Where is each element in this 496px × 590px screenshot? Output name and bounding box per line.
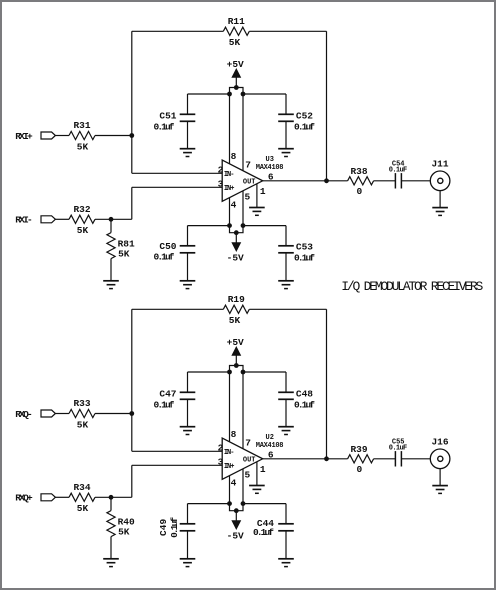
wire RXQ+ to R34 bbox=[55, 496, 69, 498]
wire +5V stem I bbox=[235, 77, 237, 87]
+5V bar Q bbox=[230, 366, 244, 373]
junction output node Q bbox=[324, 456, 329, 461]
svg-text:0: 0 bbox=[357, 186, 363, 197]
wire C48 drop bbox=[285, 372, 287, 392]
junction +5V rail left Q bbox=[227, 370, 232, 375]
junction -5V stem Q bbox=[234, 508, 239, 513]
wire pin8 supply rail Q bbox=[229, 372, 231, 504]
wire R34 to corner Q bbox=[95, 496, 132, 498]
junction +5V stem Q bbox=[234, 363, 239, 368]
svg-text:RXI+: RXI+ bbox=[15, 131, 33, 142]
svg-text:0.1uf: 0.1uf bbox=[154, 121, 175, 132]
svg-text:2: 2 bbox=[218, 165, 224, 176]
wire feedback top left Q bbox=[132, 308, 224, 310]
junction +5V rail right I bbox=[241, 92, 246, 97]
svg-text:R39: R39 bbox=[350, 444, 367, 455]
+5V arrow I bbox=[232, 69, 241, 78]
junction +5V rail right Q bbox=[241, 370, 246, 375]
wire RXI- to R32 bbox=[55, 218, 69, 220]
svg-text:RXQ-: RXQ- bbox=[15, 409, 33, 420]
svg-text:3: 3 bbox=[218, 457, 224, 468]
svg-text:0.1uf: 0.1uf bbox=[294, 121, 315, 132]
resistor R38 bbox=[348, 177, 374, 185]
wire node to R81 bbox=[110, 219, 112, 232]
resistor R19 bbox=[223, 305, 249, 313]
wire pin1 stub I bbox=[256, 184, 258, 208]
wire feedback top right I bbox=[249, 30, 326, 32]
ground J16 bbox=[432, 486, 448, 494]
wire C52 to ground bbox=[285, 121, 287, 148]
svg-text:J11: J11 bbox=[431, 159, 448, 170]
wire C49 drop bbox=[187, 504, 189, 524]
svg-text:5K: 5K bbox=[77, 419, 89, 430]
resistor R31 bbox=[69, 131, 95, 139]
+5V bar I bbox=[230, 88, 244, 95]
op-amp U3 MAX4108 bbox=[222, 160, 263, 201]
svg-text:2: 2 bbox=[218, 443, 224, 454]
wire -5V rail to C53 bbox=[243, 225, 286, 227]
wire R81 to ground bbox=[110, 259, 112, 281]
ground C52 bbox=[278, 149, 294, 157]
junction output node I bbox=[324, 178, 329, 183]
wire C53 to ground bbox=[285, 253, 287, 281]
svg-text:OUT: OUT bbox=[243, 456, 256, 464]
wire C54 to J11 bbox=[401, 180, 430, 182]
wire noninverting vertical I bbox=[131, 187, 133, 219]
ground C49 bbox=[180, 559, 196, 567]
svg-text:5K: 5K bbox=[118, 249, 130, 260]
svg-text:0.1uF: 0.1uF bbox=[389, 166, 408, 174]
svg-text:0.1uf: 0.1uf bbox=[253, 527, 274, 538]
wire noninverting input I bbox=[132, 186, 222, 188]
wire pin1 stub Q bbox=[256, 462, 258, 486]
svg-text:R11: R11 bbox=[228, 16, 245, 27]
svg-text:U2: U2 bbox=[266, 434, 274, 442]
svg-text:+5V: +5V bbox=[227, 337, 244, 348]
wire feedback top right Q bbox=[249, 308, 326, 310]
svg-text:-5V: -5V bbox=[227, 530, 244, 541]
wire feedback left vertical I bbox=[131, 31, 133, 173]
wire +5V stem Q bbox=[235, 355, 237, 365]
ground J11 bbox=[432, 208, 448, 216]
resistor R33 bbox=[69, 409, 95, 417]
ground C51 bbox=[180, 149, 196, 157]
svg-text:7: 7 bbox=[245, 437, 251, 448]
capacitor C52 bbox=[278, 114, 294, 121]
svg-text:R38: R38 bbox=[350, 166, 367, 177]
resistor R81 bbox=[107, 233, 115, 259]
capacitor C54 bbox=[395, 173, 401, 188]
svg-text:3: 3 bbox=[218, 179, 224, 190]
svg-text:R19: R19 bbox=[228, 294, 245, 305]
wire C52 drop bbox=[285, 94, 287, 114]
wire -5V stem I bbox=[235, 233, 237, 243]
wire -5V rail to C50 bbox=[188, 225, 230, 227]
svg-text:5: 5 bbox=[245, 470, 251, 481]
wire R33 to node Q bbox=[95, 413, 132, 415]
input port RXQ+ bbox=[41, 494, 55, 501]
connector J11 bbox=[430, 171, 450, 191]
svg-text:5K: 5K bbox=[118, 527, 130, 538]
junction node inverting Q bbox=[129, 411, 134, 416]
wire pin8 supply rail I bbox=[229, 94, 231, 226]
svg-text:C48: C48 bbox=[296, 388, 313, 399]
capacitor C49 bbox=[180, 524, 196, 531]
svg-text:8: 8 bbox=[231, 429, 237, 440]
svg-text:R31: R31 bbox=[73, 120, 90, 131]
junction +5V rail left I bbox=[227, 92, 232, 97]
svg-text:IN+: IN+ bbox=[224, 185, 235, 193]
capacitor C53 bbox=[278, 246, 294, 253]
input port RXQ- bbox=[41, 410, 55, 417]
wire C51 to ground bbox=[187, 121, 189, 148]
resistor R34 bbox=[69, 493, 95, 501]
wire C44 to ground bbox=[285, 531, 287, 559]
ground C50 bbox=[180, 281, 196, 289]
svg-text:4: 4 bbox=[231, 477, 237, 488]
junction node noninverting Q bbox=[109, 495, 114, 500]
ground C48 bbox=[278, 427, 294, 435]
resistor R11 bbox=[223, 27, 249, 35]
svg-text:5K: 5K bbox=[229, 315, 241, 326]
junction +5V stem I bbox=[234, 85, 239, 90]
input port RXI+ bbox=[41, 132, 55, 139]
junction -5V stem I bbox=[234, 230, 239, 235]
svg-text:7: 7 bbox=[245, 159, 251, 170]
ground C44 bbox=[278, 559, 294, 567]
svg-text:5K: 5K bbox=[229, 37, 241, 48]
wire pin7 supply rail I bbox=[242, 94, 244, 226]
svg-text:5K: 5K bbox=[77, 503, 89, 514]
svg-text:RXI-: RXI- bbox=[15, 215, 33, 226]
wire -5V stem Q bbox=[235, 511, 237, 521]
wire R39 to C55 bbox=[374, 458, 396, 460]
wire inverting input Q bbox=[132, 450, 222, 452]
svg-text:0.1uf: 0.1uf bbox=[154, 251, 175, 262]
wire +5V rail to C51 bbox=[188, 93, 230, 95]
svg-text:0.1uf: 0.1uf bbox=[169, 517, 180, 538]
wire pin7 supply rail Q bbox=[242, 372, 244, 504]
svg-text:C50: C50 bbox=[159, 241, 176, 252]
svg-text:I/Q DEMODULATOR RECEIVERS: I/Q DEMODULATOR RECEIVERS bbox=[341, 279, 483, 294]
-5V arrow Q bbox=[232, 521, 241, 530]
junction -5V rail right I bbox=[241, 223, 246, 228]
junction -5V rail right Q bbox=[241, 501, 246, 506]
svg-text:C51: C51 bbox=[159, 110, 176, 121]
svg-text:5K: 5K bbox=[77, 141, 89, 152]
wire feedback right vertical Q bbox=[326, 309, 328, 459]
wire +5V rail to C52 bbox=[243, 93, 286, 95]
wire R38 to C54 bbox=[374, 180, 396, 182]
resistor R39 bbox=[348, 455, 374, 463]
wire +5V rail to C47 bbox=[188, 371, 230, 373]
junction -5V rail left Q bbox=[227, 501, 232, 506]
wire inverting input I bbox=[132, 172, 222, 174]
capacitor C50 bbox=[180, 246, 196, 253]
capacitor C48 bbox=[278, 392, 294, 399]
svg-text:0.1uf: 0.1uf bbox=[294, 252, 315, 263]
wire C49 to ground bbox=[187, 531, 189, 559]
svg-text:0.1uF: 0.1uF bbox=[389, 444, 408, 452]
ground C47 bbox=[180, 427, 196, 435]
svg-text:IN+: IN+ bbox=[224, 463, 235, 471]
-5V bar Q bbox=[230, 504, 244, 511]
wire RXI+ to R31 bbox=[55, 135, 69, 137]
-5V arrow I bbox=[232, 243, 241, 252]
svg-text:R33: R33 bbox=[73, 398, 90, 409]
svg-text:IN-: IN- bbox=[224, 171, 235, 179]
op-amp U2 MAX4108 bbox=[222, 438, 263, 479]
svg-text:C52: C52 bbox=[296, 110, 313, 121]
svg-text:J16: J16 bbox=[431, 437, 448, 448]
capacitor C44 bbox=[278, 524, 294, 531]
junction -5V rail left I bbox=[227, 223, 232, 228]
junction node noninverting I bbox=[109, 217, 114, 222]
ground pin1 U2 bbox=[249, 486, 265, 494]
wire output Q bbox=[263, 458, 348, 460]
resistor R32 bbox=[69, 215, 95, 223]
wire node to R40 bbox=[110, 497, 112, 510]
wire noninverting vertical Q bbox=[131, 465, 133, 497]
wire C48 to ground bbox=[285, 399, 287, 426]
wire J11 to ground bbox=[439, 191, 441, 208]
capacitor C55 bbox=[395, 451, 401, 466]
wire C53 drop bbox=[285, 226, 287, 246]
connector J16 bbox=[430, 449, 450, 469]
svg-text:-5V: -5V bbox=[227, 252, 244, 263]
ground R40 bbox=[103, 559, 119, 567]
wire output I bbox=[263, 180, 348, 182]
svg-text:0: 0 bbox=[357, 464, 363, 475]
wire +5V rail to C48 bbox=[243, 371, 286, 373]
capacitor C51 bbox=[180, 114, 196, 121]
wire feedback top left I bbox=[132, 30, 224, 32]
input port RXI- bbox=[41, 216, 55, 223]
svg-text:U3: U3 bbox=[266, 156, 274, 164]
svg-text:IN-: IN- bbox=[224, 449, 235, 457]
svg-text:5: 5 bbox=[245, 192, 251, 203]
wire C55 to J16 bbox=[401, 458, 430, 460]
svg-text:0.1uf: 0.1uf bbox=[294, 399, 315, 410]
capacitor C47 bbox=[180, 392, 196, 399]
wire C50 drop bbox=[187, 226, 189, 246]
wire C47 drop bbox=[187, 372, 189, 392]
wire noninverting input Q bbox=[132, 464, 222, 466]
wire C51 drop bbox=[187, 94, 189, 114]
wire R31 to node I bbox=[95, 135, 132, 137]
wire R32 to corner I bbox=[95, 218, 132, 220]
ground R81 bbox=[103, 281, 119, 289]
wire C44 drop bbox=[285, 504, 287, 524]
junction node inverting I bbox=[129, 133, 134, 138]
svg-text:+5V: +5V bbox=[227, 59, 244, 70]
wire C50 to ground bbox=[187, 253, 189, 281]
wire C47 to ground bbox=[187, 399, 189, 426]
svg-text:8: 8 bbox=[231, 151, 237, 162]
wire J16 to ground bbox=[439, 469, 441, 486]
svg-text:C49: C49 bbox=[158, 519, 169, 536]
svg-text:R34: R34 bbox=[73, 482, 90, 493]
wire feedback right vertical I bbox=[326, 31, 328, 181]
svg-text:1: 1 bbox=[260, 186, 266, 197]
svg-text:4: 4 bbox=[231, 199, 237, 210]
wire RXQ- to R33 bbox=[55, 413, 69, 415]
svg-text:0.1uf: 0.1uf bbox=[154, 399, 175, 410]
-5V bar I bbox=[230, 226, 244, 233]
ground pin1 U3 bbox=[249, 208, 265, 216]
wire -5V rail to C44 bbox=[243, 503, 286, 505]
svg-text:R32: R32 bbox=[73, 204, 90, 215]
svg-text:5K: 5K bbox=[77, 225, 89, 236]
resistor R40 bbox=[107, 511, 115, 537]
svg-text:C53: C53 bbox=[296, 242, 313, 253]
svg-text:OUT: OUT bbox=[243, 178, 256, 186]
svg-text:RXQ+: RXQ+ bbox=[15, 493, 33, 504]
svg-text:C47: C47 bbox=[159, 388, 176, 399]
wire -5V rail to C49 bbox=[188, 503, 230, 505]
+5V arrow Q bbox=[232, 347, 241, 356]
svg-text:1: 1 bbox=[260, 464, 266, 475]
ground C53 bbox=[278, 281, 294, 289]
wire R40 to ground bbox=[110, 537, 112, 559]
wire feedback left vertical Q bbox=[131, 309, 133, 451]
